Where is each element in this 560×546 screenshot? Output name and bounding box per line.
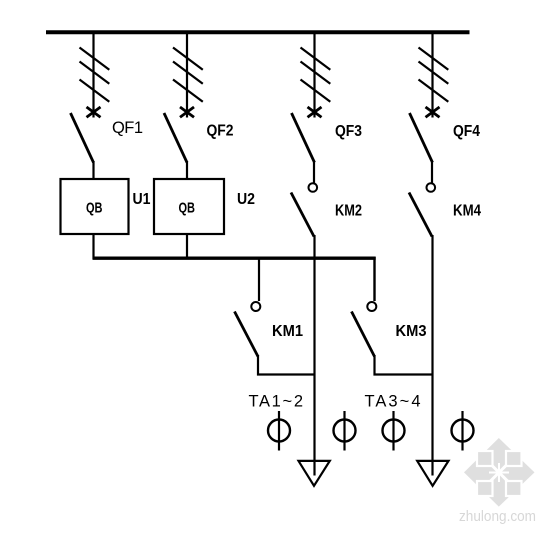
svg-text:KM1: KM1	[272, 323, 303, 340]
wire U2 box to tie bus	[186, 234, 188, 259]
label QF2	[207, 123, 234, 140]
label QF3	[335, 123, 362, 140]
svg-text:KM4: KM4	[453, 203, 481, 220]
wire QF1 to U1 box	[92, 161, 94, 180]
wire tie bus to KM1	[258, 257, 260, 301]
transformer U1 box (QB)	[61, 179, 129, 234]
drawout hatch marks feeder 1	[80, 48, 110, 102]
contact X feeder 2	[180, 107, 194, 117]
feeder wire 2 (bus to QF2 contact)	[186, 32, 188, 118]
wire U1 box to tie bus	[92, 234, 94, 259]
label U2	[237, 191, 255, 208]
svg-text:QF1: QF1	[112, 119, 143, 137]
label KM3	[396, 323, 427, 340]
svg-text:TA1~2: TA1~2	[249, 393, 304, 411]
wire KM1 to feeder A	[258, 355, 315, 375]
feeder wire 1 (bus to QF1 contact)	[92, 32, 94, 118]
drawout hatch marks feeder 3	[301, 48, 331, 102]
drawout hatch marks feeder 2	[173, 48, 203, 102]
watermark text	[459, 509, 536, 525]
svg-text:KM3: KM3	[396, 323, 427, 340]
current transformer TA1	[268, 411, 290, 451]
watermark logo	[464, 438, 535, 507]
breaker QF3 blade	[292, 113, 315, 163]
feeder wire 4 (bus to QF4 contact)	[431, 32, 433, 118]
breaker QF2 blade	[164, 113, 187, 163]
contactor KM2 blade	[291, 193, 314, 237]
current transformer TA4	[452, 411, 474, 451]
current transformer TA2	[334, 411, 356, 451]
svg-text:TA3~4: TA3~4	[365, 393, 421, 411]
contactor KM4 contact circle	[427, 183, 436, 192]
label QF4	[453, 123, 480, 140]
label KM1	[272, 323, 303, 340]
bus bar	[46, 30, 470, 34]
transformer U2 box (QB)	[154, 179, 224, 234]
feeder wire A (KM2 down to load arrow)	[313, 235, 315, 476]
drawout hatch marks feeder 4	[419, 48, 449, 102]
svg-text:QF2: QF2	[207, 123, 234, 140]
label TA3~4	[365, 393, 421, 411]
svg-text:zhulong.com: zhulong.com	[459, 509, 536, 525]
svg-text:U2: U2	[237, 191, 255, 208]
svg-text:U1: U1	[133, 191, 151, 208]
breaker QF1 blade	[71, 113, 94, 163]
label TA1~2	[249, 393, 304, 411]
load arrow feeder B	[417, 461, 448, 486]
contact X feeder 4	[426, 107, 440, 117]
contactor KM1 contact circle	[251, 302, 260, 311]
current transformer TA3	[383, 411, 405, 451]
contactor KM3 contact circle	[367, 302, 376, 311]
tie bus wire	[93, 257, 376, 260]
svg-text:QB: QB	[179, 200, 196, 217]
svg-text:QF3: QF3	[335, 123, 362, 140]
contactor KM3 blade	[352, 312, 375, 357]
label U1	[133, 191, 151, 208]
wire tie bus to KM3	[373, 257, 375, 301]
label KM4	[453, 203, 481, 220]
contactor KM1 blade	[235, 312, 259, 357]
label KM2	[335, 203, 362, 220]
svg-text:KM2: KM2	[335, 203, 362, 220]
contact X feeder 1	[87, 107, 101, 117]
wire QF4 to KM4	[431, 161, 433, 183]
svg-text:QF4: QF4	[453, 123, 480, 140]
contact X feeder 3	[308, 107, 322, 117]
svg-text:QB: QB	[86, 200, 103, 217]
breaker QF4 blade	[410, 113, 433, 163]
feeder wire 3 (bus to QF3 contact)	[313, 32, 315, 118]
contactor KM4 blade	[409, 193, 432, 237]
wire QF2 to U2 box	[186, 161, 188, 180]
wire KM3 to feeder B	[375, 355, 433, 375]
label QF1	[112, 119, 143, 137]
feeder wire B (KM4 down to load arrow)	[431, 235, 433, 476]
wire QF3 to KM2	[313, 161, 315, 183]
load arrow feeder A	[299, 461, 330, 486]
contactor KM2 contact circle	[309, 183, 318, 192]
